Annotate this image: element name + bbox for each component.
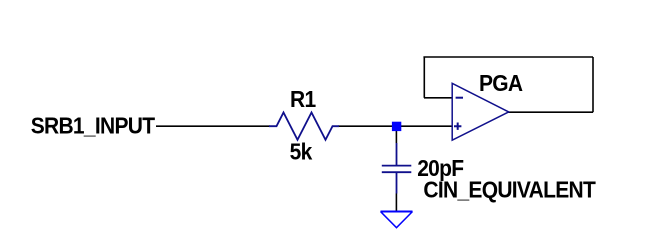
svg-text:5k: 5k [290,138,313,164]
svg-text:R1: R1 [290,86,316,112]
svg-text:SRB1_INPUT: SRB1_INPUT [31,113,156,139]
svg-text:PGA: PGA [479,70,523,96]
svg-text:CIN_EQUIVALENT: CIN_EQUIVALENT [423,177,596,203]
